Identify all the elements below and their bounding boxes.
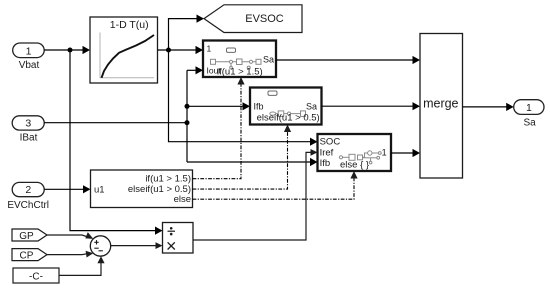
svg-text:SOC: SOC xyxy=(320,137,341,148)
from tag GP xyxy=(12,229,47,242)
wire subsystem2 Sa to merge xyxy=(322,102,421,110)
wire -C- to sum xyxy=(59,256,105,275)
svg-text:1: 1 xyxy=(526,102,532,114)
inport 2 EVChCtrl xyxy=(7,182,49,210)
svg-text:2: 2 xyxy=(25,184,31,196)
svg-text:EVSOC: EVSOC xyxy=(245,13,284,25)
svg-text:-C-: -C- xyxy=(29,272,43,283)
svg-text:EVChCtrl: EVChCtrl xyxy=(7,200,49,211)
constant -C- xyxy=(13,268,59,283)
svg-text:Vbat: Vbat xyxy=(19,60,40,71)
wire Vbat to lookup table xyxy=(44,46,90,54)
svg-text:GP: GP xyxy=(19,231,34,242)
subsystem U3 if-action (else) xyxy=(318,134,392,171)
wire SOC branch to subsystem3 xyxy=(169,50,318,146)
wire merge to outport Sa xyxy=(463,103,514,111)
svg-text:Ifb: Ifb xyxy=(320,158,331,169)
product divide block xyxy=(163,223,194,254)
svg-text:IBat: IBat xyxy=(20,133,38,144)
from tag CP xyxy=(12,249,47,262)
svg-text:Sa: Sa xyxy=(523,118,536,129)
svg-text:Ifb: Ifb xyxy=(254,102,264,112)
wire product to subsystem3 Iref xyxy=(193,149,318,240)
wire sum to product xyxy=(111,242,163,249)
wire GP to sum xyxy=(47,232,93,239)
svg-text:1: 1 xyxy=(26,45,32,57)
if block xyxy=(91,170,193,208)
wire if action 2 (dash-dot) to subsystem2 xyxy=(193,125,292,190)
wire CP to sum xyxy=(47,251,93,258)
inport 1 Vbat xyxy=(13,43,45,71)
wire IBat to subsystem3 Ifb xyxy=(187,158,318,166)
svg-text:Sa: Sa xyxy=(306,102,317,112)
svg-text:Iref: Iref xyxy=(320,147,334,158)
svg-text:u1: u1 xyxy=(94,185,105,196)
svg-text:Sa: Sa xyxy=(263,55,274,65)
wire subsystem1 Sa to merge xyxy=(276,56,420,64)
svg-text:if(u1 > 1.5): if(u1 > 1.5) xyxy=(217,67,263,78)
wire subsystem3 out to merge xyxy=(391,149,420,157)
subsystem U2 if-action (elseif u1>0.5) xyxy=(250,88,322,125)
inport 3 IBat xyxy=(12,116,44,144)
svg-text:1: 1 xyxy=(382,148,387,158)
wire if action 1 (dash-dot) to subsystem1 xyxy=(193,77,245,179)
svg-text:elseif(u1 > 0.5): elseif(u1 > 0.5) xyxy=(257,112,320,123)
node junction on lookup output xyxy=(166,48,171,53)
merge block xyxy=(420,34,463,179)
sum block xyxy=(90,236,110,256)
wire IBat to subsystem1 Iout xyxy=(187,66,203,74)
svg-text:1-D T(u): 1-D T(u) xyxy=(110,19,149,31)
node junction on Vbat wire xyxy=(68,48,73,53)
wire Vbat branch down to divide block xyxy=(70,50,163,235)
node junction IBat at inflow xyxy=(185,120,190,125)
outport 1 Sa xyxy=(514,100,544,129)
svg-text:else: else xyxy=(174,194,191,205)
wire lookup output to subsystem1 input 1 xyxy=(158,46,204,54)
wire if action 3 (dash-dot) to subsystem3 xyxy=(193,171,358,199)
wire IBat vertical trunk xyxy=(186,70,188,162)
goto tag EVSOC xyxy=(204,5,302,33)
wire to EVSOC goto tag xyxy=(169,15,205,51)
svg-text:1: 1 xyxy=(207,44,212,54)
wire EVChCtrl to if block xyxy=(44,185,90,193)
svg-text:3: 3 xyxy=(25,117,31,129)
node junction IBat at Ifb branch xyxy=(185,104,190,109)
wire IBat to subsystem2 Ifb xyxy=(187,102,250,110)
svg-text:CP: CP xyxy=(20,250,34,261)
subsystem U1 if-action (if u1>1.5) xyxy=(203,41,276,78)
lookup table 1-D T(u) xyxy=(90,17,158,83)
svg-text:else { }: else { } xyxy=(340,159,369,170)
wire IBat horizontal xyxy=(44,122,187,124)
svg-text:merge: merge xyxy=(423,97,458,111)
